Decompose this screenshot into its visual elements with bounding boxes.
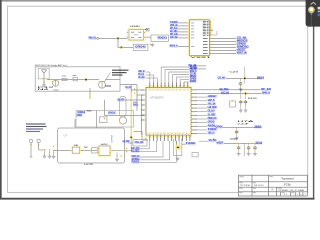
svg-text:MT3620TN: MT3620TN [151, 96, 164, 100]
svg-text:PWM_IO1: PWM_IO1 [89, 36, 97, 40]
svg-text:2017-5-25: 2017-5-25 [254, 185, 264, 187]
svg-text:MISO2: MISO2 [257, 75, 264, 79]
svg-text:RF_EN: RF_EN [261, 87, 271, 91]
svg-text:PWM_IO1: PWM_IO1 [208, 117, 218, 120]
svg-text:GPIO42: GPIO42 [135, 46, 146, 49]
svg-text:TOPSWEET_CSK_2D_WSMB: TOPSWEET_CSK_2D_WSMB [278, 190, 305, 192]
svg-text:P12: P12 [38, 87, 54, 89]
svg-text:IO_REF: IO_REF [208, 113, 216, 116]
svg-text:WAKE_N: WAKE_N [170, 43, 178, 47]
svg-text:VSS1: VSS1 [191, 57, 211, 59]
svg-text:IO_REF: IO_REF [117, 97, 124, 101]
svg-text:RXD1: RXD1 [158, 37, 169, 39]
svg-text:U?: U? [64, 133, 68, 137]
svg-text:100nF: 100nF [229, 139, 239, 141]
svg-text:I2C_SDA: I2C_SDA [138, 76, 145, 79]
svg-text:nRESET: nRESET [217, 140, 224, 144]
svg-text:VBAT_IN: VBAT_IN [237, 52, 247, 55]
svg-text:GPIO42: GPIO42 [208, 121, 216, 124]
svg-text:LED_PWM: LED_PWM [123, 141, 130, 143]
svg-text:PCBc: PCBc [284, 183, 291, 187]
svg-text:nRESET: nRESET [208, 95, 218, 98]
svg-text:SWDIO: SWDIO [190, 80, 197, 83]
svg-text:0.1uF X5R: 0.1uF X5R [84, 164, 94, 166]
svg-text:R101: R101 [248, 98, 257, 100]
svg-text:VBAT_IN: VBAT_IN [255, 140, 262, 144]
svg-text:RXD1: RXD1 [78, 110, 86, 114]
svg-text:VDD_IO: VDD_IO [208, 132, 215, 135]
svg-text:Topsweet: Topsweet [281, 176, 294, 180]
svg-text:LED_PWM: LED_PWM [208, 106, 217, 109]
svg-text:ADC_IN2: ADC_IN2 [170, 35, 178, 39]
svg-text:I2C_SDA: I2C_SDA [220, 88, 229, 91]
svg-text:C23: C23 [229, 71, 238, 73]
svg-text:VBAT_IN: VBAT_IN [208, 99, 215, 102]
svg-text:RXD1: RXD1 [132, 161, 141, 164]
svg-text:TE TOP.A: TE TOP.A [240, 184, 250, 187]
svg-text:GPIO: GPIO [112, 135, 114, 143]
svg-text:GPIO8: GPIO8 [216, 124, 223, 128]
svg-text:EN_3V3: EN_3V3 [208, 110, 216, 113]
svg-text:SPI_CLK: SPI_CLK [209, 139, 217, 142]
svg-text:N4: N4 [38, 89, 50, 91]
svg-text:PWM_IO1: PWM_IO1 [133, 102, 138, 106]
svg-text:GPIO42: GPIO42 [108, 110, 116, 114]
svg-text:WAKE_N: WAKE_N [262, 90, 270, 94]
svg-text:XTAL_32K: XTAL_32K [208, 102, 216, 105]
svg-text:IO_REF: IO_REF [132, 150, 140, 153]
svg-text:ADC_IN2: ADC_IN2 [221, 91, 230, 94]
svg-text:EN_3V3: EN_3V3 [125, 85, 131, 89]
svg-text:2.2uF: 2.2uF [237, 123, 250, 125]
svg-text:XTAL_32K: XTAL_32K [135, 141, 144, 144]
svg-text:SWDIO: SWDIO [254, 124, 261, 128]
svg-text:1uF/16V: 1uF/16V [101, 144, 109, 146]
svg-text:CS_N1: CS_N1 [218, 75, 227, 79]
svg-text:TXD0: TXD0 [77, 115, 83, 117]
svg-text:TXD0: TXD0 [186, 141, 197, 145]
